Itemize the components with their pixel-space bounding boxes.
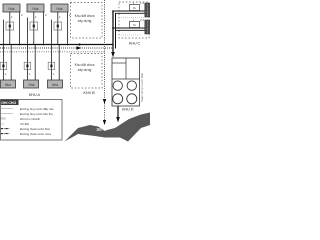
unit 2 tank (hatched) [145, 20, 150, 34]
legend row 6 symbol [1, 133, 10, 135]
plant top band divider [112, 78, 140, 80]
arrow into plant [111, 52, 115, 58]
svg-text:Đường ống nước tiêu thụ: Đường ống nước tiêu thụ [20, 112, 53, 116]
house N4 (bottom row) [1, 80, 16, 88]
svg-text:Nhà: Nhà [5, 83, 11, 87]
water meter M3 [54, 22, 62, 30]
legend title bar [1, 100, 19, 106]
junction dot on solid main [78, 43, 80, 45]
undeveloped land box 2 [71, 54, 103, 89]
svg-text:2.4: 2.4 [140, 18, 144, 22]
service drop pipes, bottom row [3, 18, 59, 81]
clarifier tank 4 [127, 94, 137, 104]
legend box [1, 100, 63, 141]
svg-text:GHI CHÚ: GHI CHÚ [1, 100, 16, 105]
house N6 (bottom row) [48, 80, 63, 88]
feeder riser (thick vertical) [112, 11, 114, 54]
legend row 5 symbol [1, 128, 10, 130]
treatment plant outline [112, 58, 140, 106]
legend row 1 symbol [1, 107, 13, 109]
pipe labels bottom row [5, 72, 55, 76]
secondary main (dashed grey) [0, 51, 105, 53]
svg-text:Đường thoát nước thải: Đường thoát nước thải [20, 127, 50, 131]
arrow on dotted main [77, 46, 82, 49]
svg-text:Trạm xử lý nước thải: Trạm xử lý nước thải [140, 73, 144, 102]
svg-text:Khu đất chưa: Khu đất chưa [75, 14, 95, 18]
svg-text:KHU C: KHU C [129, 42, 141, 46]
svg-text:KHU D: KHU D [122, 107, 134, 111]
svg-text:Xử đất: Xử đất [20, 122, 29, 126]
svg-text:Nhà: Nhà [28, 83, 34, 87]
unit 2 control box [130, 20, 140, 28]
svg-text:Nhà: Nhà [32, 7, 38, 11]
plant right cell divider [112, 62, 126, 64]
house N5 (bottom row) [24, 80, 39, 88]
drain line (dotted vertical) [104, 0, 106, 124]
svg-text:xây dựng: xây dựng [78, 19, 92, 23]
svg-text:KHU A: KHU A [29, 93, 41, 97]
arrow into river on drain line [103, 120, 106, 125]
svg-text:Nhà: Nhà [52, 83, 58, 87]
svg-text:Đường ống nước đầu vào: Đường ống nước đầu vào [20, 107, 54, 111]
water meter M4 [0, 62, 7, 69]
KHU C boundary (dashed) [119, 2, 149, 38]
house N3 (top row) [51, 4, 68, 12]
river [65, 113, 151, 142]
undeveloped land box 1 [71, 3, 103, 39]
svg-text:⊥⊥: ⊥⊥ [1, 122, 6, 126]
unit 1 control box [130, 3, 140, 11]
outfall pipe to river [117, 106, 119, 119]
plant vertical divider [125, 58, 127, 79]
unit 1 tank (hatched) [145, 3, 150, 17]
house N2 (top row) [27, 4, 44, 12]
house N1 (top row) [3, 4, 20, 12]
clarifier tank 2 [127, 81, 136, 90]
water meter M1 [6, 22, 14, 30]
outfall arrowhead [116, 117, 120, 123]
return riser [115, 13, 117, 48]
legend row 2 symbol [1, 112, 13, 114]
water meter M6 [48, 62, 55, 69]
svg-text:xây dựng: xây dựng [78, 68, 92, 72]
svg-text:Nhà: Nhà [56, 7, 62, 11]
water meter M2 [30, 22, 38, 30]
svg-text:Khu đất chưa: Khu đất chưa [75, 63, 95, 67]
water meter M5 [24, 62, 31, 69]
clarifier tank 3 [113, 94, 123, 104]
svg-text:XXX: XXX [1, 117, 6, 121]
svg-text:XL: XL [133, 23, 137, 27]
svg-text:KHU B: KHU B [83, 91, 95, 95]
distribution main (solid) [0, 44, 113, 46]
svg-text:XL: XL [133, 6, 137, 10]
unit 1 supply pipes [112, 10, 145, 12]
transmission main (dotted) [0, 47, 113, 49]
unit 2 drain (dotted) [121, 34, 140, 36]
pipe labels top row [11, 13, 71, 19]
svg-text:1.4: 1.4 [140, 1, 144, 5]
svg-text:Hồ bơm /nhánh: Hồ bơm /nhánh [20, 117, 40, 121]
unit 1 drain (dotted) [121, 17, 146, 19]
svg-text:Đường thoát nước mưa: Đường thoát nước mưa [20, 132, 51, 136]
arrow on drain line [103, 99, 106, 104]
unit 2 supply pipes [112, 27, 145, 29]
svg-text:Nhà: Nhà [8, 7, 14, 11]
service drop pipes, top row [10, 12, 68, 46]
clarifier tank 1 [113, 81, 122, 90]
